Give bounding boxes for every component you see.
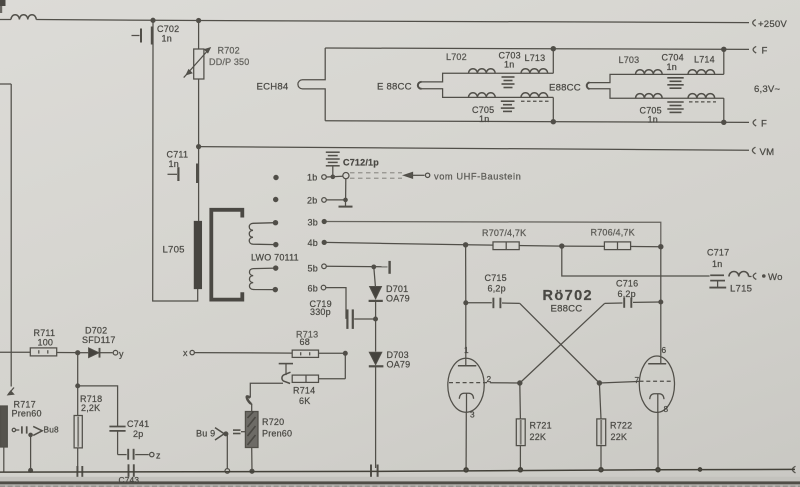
svg-text:2p: 2p <box>133 429 143 439</box>
svg-text:1n: 1n <box>162 34 172 44</box>
svg-text:R711: R711 <box>34 328 56 338</box>
svg-text:L703: L703 <box>619 55 640 65</box>
svg-text:Bu 9: Bu 9 <box>196 429 215 439</box>
svg-text:68: 68 <box>300 337 310 347</box>
svg-text:6b: 6b <box>308 284 318 294</box>
svg-text:R722: R722 <box>610 421 632 431</box>
svg-text:22K: 22K <box>611 432 628 442</box>
svg-text:x: x <box>183 348 188 358</box>
svg-text:F: F <box>761 119 767 130</box>
svg-text:1b: 1b <box>307 173 317 183</box>
svg-text:z: z <box>156 451 161 461</box>
svg-text:C716: C716 <box>616 279 638 289</box>
svg-text:1n: 1n <box>169 159 179 169</box>
svg-text:8: 8 <box>664 404 669 414</box>
svg-text:5b: 5b <box>308 264 318 274</box>
svg-text:1n: 1n <box>712 259 722 269</box>
svg-text:6,2p: 6,2p <box>488 284 506 294</box>
svg-text:D701: D701 <box>386 284 408 294</box>
svg-text:SFD117: SFD117 <box>82 335 116 345</box>
svg-text:R707/4,7K: R707/4,7K <box>482 228 526 238</box>
svg-text:ECH84: ECH84 <box>257 82 289 93</box>
svg-text:LWO 70111: LWO 70111 <box>251 253 299 263</box>
svg-text:R721: R721 <box>530 421 552 431</box>
svg-text:2b: 2b <box>307 196 317 206</box>
svg-text:Bu8: Bu8 <box>44 425 60 435</box>
svg-text:E 88CC: E 88CC <box>377 82 412 93</box>
svg-text:D702: D702 <box>85 326 107 336</box>
svg-text:22K: 22K <box>530 432 547 442</box>
svg-text:L702: L702 <box>446 52 467 62</box>
svg-text:F: F <box>762 46 768 57</box>
svg-text:C704: C704 <box>662 53 684 63</box>
svg-text:6: 6 <box>662 345 667 355</box>
svg-text:C712/1p: C712/1p <box>343 158 379 168</box>
svg-text:L713: L713 <box>525 53 546 63</box>
svg-text:2: 2 <box>487 374 492 384</box>
svg-text:1: 1 <box>464 345 469 355</box>
svg-text:6K: 6K <box>299 396 310 406</box>
svg-text:1n: 1n <box>504 60 514 70</box>
svg-text:3b: 3b <box>308 218 318 228</box>
svg-text:Pren60: Pren60 <box>262 429 292 439</box>
svg-text:100: 100 <box>38 338 54 348</box>
svg-text:1n: 1n <box>667 62 677 72</box>
svg-text:C717: C717 <box>707 248 729 258</box>
svg-text:OA79: OA79 <box>386 294 410 304</box>
svg-text:R702: R702 <box>218 46 240 56</box>
svg-text:vom UHF-Baustein: vom UHF-Baustein <box>434 172 521 182</box>
svg-text:C711: C711 <box>167 150 189 160</box>
svg-text:R720: R720 <box>262 417 284 427</box>
svg-text:C715: C715 <box>485 273 507 283</box>
svg-text:R714: R714 <box>293 386 315 396</box>
svg-text:Wo: Wo <box>768 272 783 283</box>
svg-text:VM: VM <box>760 147 775 158</box>
svg-text:7: 7 <box>635 375 640 385</box>
svg-text:2,2K: 2,2K <box>81 403 100 413</box>
svg-text:E88CC: E88CC <box>549 83 581 94</box>
svg-text:E88CC: E88CC <box>551 304 583 315</box>
svg-text:Rö702: Rö702 <box>543 288 594 304</box>
svg-text:+250V: +250V <box>758 19 787 30</box>
svg-text:C743: C743 <box>119 475 140 485</box>
svg-text:6,3V~: 6,3V~ <box>754 84 781 95</box>
svg-text:L705: L705 <box>163 245 185 256</box>
svg-text:y: y <box>119 349 124 359</box>
svg-text:R706/4,7K: R706/4,7K <box>591 228 635 238</box>
svg-text:D703: D703 <box>387 350 409 360</box>
svg-text:6,2p: 6,2p <box>618 289 636 299</box>
svg-text:DD/P 350: DD/P 350 <box>209 57 249 67</box>
svg-text:L714: L714 <box>694 55 715 65</box>
svg-text:330p: 330p <box>310 307 331 317</box>
svg-text:4b: 4b <box>308 238 318 248</box>
svg-text:L715: L715 <box>730 284 752 295</box>
svg-text:1n: 1n <box>648 115 658 125</box>
svg-text:Pren60: Pren60 <box>12 409 42 419</box>
svg-text:OA79: OA79 <box>387 360 411 370</box>
svg-text:3: 3 <box>470 410 475 420</box>
svg-text:C702: C702 <box>157 24 179 34</box>
svg-text:C741: C741 <box>127 419 149 429</box>
svg-text:1n: 1n <box>479 114 489 124</box>
